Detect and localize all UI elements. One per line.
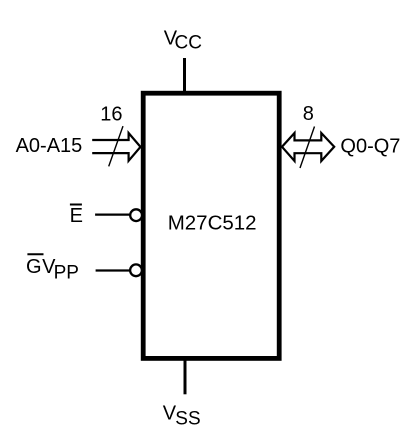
svg-text:G: G xyxy=(26,256,42,278)
svg-text:A0-A15: A0-A15 xyxy=(16,135,83,157)
svg-text:SS: SS xyxy=(175,408,200,429)
svg-text:8: 8 xyxy=(303,103,314,125)
svg-text:E: E xyxy=(70,205,83,227)
svg-text:PP: PP xyxy=(54,262,79,283)
svg-text:M27C512: M27C512 xyxy=(168,211,257,234)
svg-text:Q0-Q7: Q0-Q7 xyxy=(340,135,400,157)
svg-text:16: 16 xyxy=(100,103,122,125)
svg-text:CC: CC xyxy=(175,33,202,54)
